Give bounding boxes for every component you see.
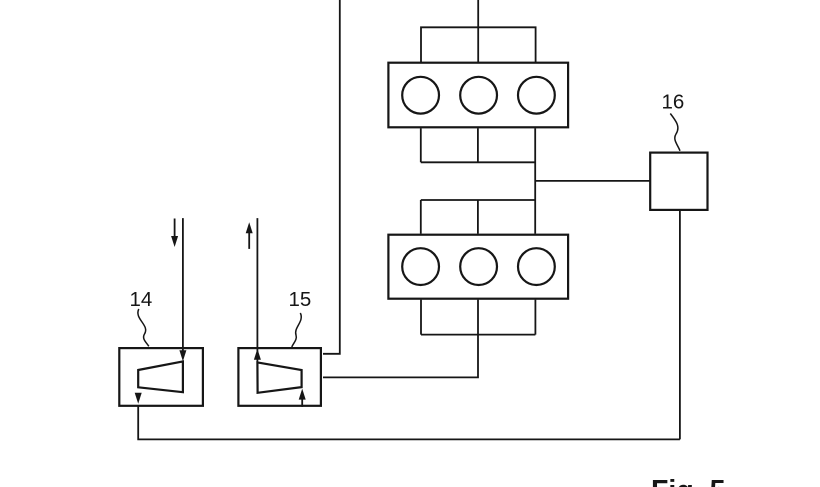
box 14 (turbine) [119,348,203,406]
arrowhead up into compressor 15 [299,389,306,400]
engine block lower (cylinder bank) [388,235,568,299]
wire: from box 16 down to bottom rail [679,211,681,439]
wire: intake manifold below lower block [421,300,535,335]
wire: lower exhaust manifold above lower block [421,200,535,234]
box 16 (control unit) [650,153,707,210]
wire: feed line into 14 [182,218,184,351]
engine block upper (cylinder bank) [388,63,568,128]
cylinder circle upper-middle [460,77,497,114]
svg-text:Fig. 5: Fig. 5 [651,475,726,487]
wire: center vertical from top into upper block [477,0,479,63]
cylinder circle lower-right [518,248,555,285]
arrowhead out of 14 (down) [135,393,142,404]
wire: right vertical linking both banks [534,128,536,233]
svg-text:15: 15 [289,288,312,311]
wire: exhaust line to box 16 [535,180,650,182]
wire: outlet line up from 15 [256,218,258,362]
cylinder circle lower-middle [460,248,497,285]
box 15 (compressor) [238,348,321,406]
leader line for 14 [138,309,149,346]
cylinder circle lower-left [402,248,439,285]
short flow arrow above 15 [248,233,250,249]
svg-text:14: 14 [130,288,153,311]
short flow arrow above 14 [174,219,176,238]
arrowhead up out of 15 [254,349,261,360]
compressor trapezoid 15 [257,362,301,392]
wire: upper exhaust manifold below upper block [421,128,535,162]
leader line for 16 [670,114,680,151]
cylinder circle upper-left [402,77,439,114]
cylinder circle upper-right [518,77,555,114]
wire: long vertical from top to elbow into box 15 [323,0,340,354]
leader line for 15 [292,313,301,347]
wire: intake manifold above upper block [421,27,536,62]
arrowhead into turbine 14 [179,350,186,361]
wire: bottom return rail [138,387,680,439]
svg-text:16: 16 [662,91,685,114]
turbine trapezoid 14 [138,361,183,392]
wire: intake feed from box 15 to lower manifold [323,335,478,378]
wire: intake stub inside 15 [301,399,303,407]
